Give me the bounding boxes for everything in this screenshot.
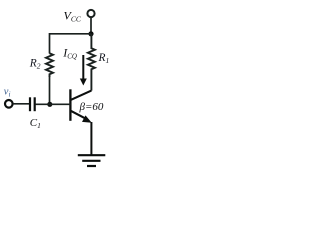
supply terminal VCC circle <box>87 10 94 17</box>
svg-text:vi: vi <box>4 87 11 99</box>
svg-text:VCC: VCC <box>64 9 82 24</box>
input terminal vi circle <box>5 100 13 108</box>
node base junction dot <box>47 102 52 107</box>
svg-text:ICQ: ICQ <box>62 46 77 61</box>
resistor R1 <box>88 34 95 91</box>
capacitor C1 plate right <box>34 97 36 111</box>
wire VCC to junction <box>90 17 92 34</box>
wire emitter down to ground <box>90 122 92 155</box>
wire vi to C1 <box>13 103 30 105</box>
transistor Q1 collector lead <box>71 91 91 100</box>
resistor R2 <box>46 53 53 77</box>
ground symbol <box>78 154 106 156</box>
capacitor C1 plate left <box>29 97 31 111</box>
wire C1 to base <box>36 103 71 105</box>
node junction dot top <box>88 31 93 36</box>
current arrow ICQ <box>82 55 84 80</box>
wire R2 bottom to base node <box>49 76 51 104</box>
svg-text:C1: C1 <box>30 117 41 130</box>
svg-text:R2: R2 <box>29 58 41 71</box>
wire horizontal top rail <box>50 34 92 54</box>
transistor Q1 emitter lead with arrow <box>71 111 87 119</box>
svg-text:R1: R1 <box>98 52 110 65</box>
transistor Q1 base bar <box>69 89 71 121</box>
svg-text:β=60: β=60 <box>79 101 104 113</box>
